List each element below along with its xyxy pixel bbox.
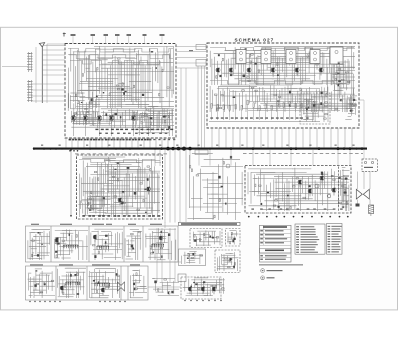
transistor T14 case: [159, 236, 163, 240]
transistor T4 case: [271, 68, 275, 72]
wire: [189, 150, 191, 166]
component body: [203, 281, 205, 283]
IF transformer Z2 bottom coil: [265, 58, 268, 61]
resistor: [147, 166, 150, 167]
transistor T15: [61, 286, 63, 290]
legend symbol B: [261, 276, 265, 280]
component body: [219, 75, 221, 77]
wire: [351, 110, 354, 112]
wire: [140, 112, 174, 114]
wire: [31, 89, 65, 91]
resistor: [274, 94, 277, 95]
bus junction: [129, 147, 131, 149]
capacitor: [279, 105, 280, 108]
wire: [345, 100, 347, 112]
wire: [111, 279, 113, 298]
transistor T18: [202, 287, 204, 291]
capacitor: [77, 273, 78, 276]
wire: [255, 57, 257, 85]
coil L-if pin: [153, 244, 155, 247]
wire: [248, 110, 340, 112]
wire: [86, 67, 90, 69]
bus junction: [355, 147, 357, 149]
wire: [76, 99, 85, 101]
pin label: [168, 139, 170, 140]
value label: [128, 133, 131, 134]
plate joint: [29, 92, 30, 93]
wire: [108, 74, 135, 76]
table rule: [260, 244, 292, 246]
wire: [82, 203, 84, 214]
wire: [176, 62, 207, 64]
transistor TR2 emitter lead: [85, 120, 87, 124]
wire: [146, 116, 148, 128]
pin label: [256, 117, 259, 118]
wire: [357, 200, 359, 205]
pin label: [163, 139, 165, 140]
wire: [31, 231, 43, 233]
wire: [82, 158, 116, 160]
wire: [263, 61, 265, 85]
wire: [31, 248, 37, 250]
FM discriminator enclosure: [190, 229, 222, 248]
wire: [343, 175, 345, 202]
pin label: [107, 215, 110, 217]
wire: [140, 286, 146, 288]
supply feed wire: [70, 150, 72, 216]
component body: [134, 192, 137, 195]
wire: [202, 283, 204, 293]
transistor TR5 emitter lead: [133, 120, 135, 124]
component body: [353, 99, 355, 101]
coil L-osc rail: [97, 245, 109, 247]
wire: [260, 172, 275, 174]
bus junction: [61, 148, 63, 150]
wire: [266, 93, 268, 112]
coil L-mod terminal: [63, 245, 64, 246]
wire: [257, 69, 306, 71]
wire: [281, 58, 283, 72]
wire: [114, 56, 116, 108]
coil L-rect pin: [104, 283, 106, 286]
pin label: [260, 117, 263, 118]
transistor TR5: [133, 116, 135, 120]
value label: [106, 129, 109, 130]
wire: [273, 179, 275, 209]
wire: [174, 228, 176, 282]
wire to bus: [351, 128, 353, 147]
wire: [96, 195, 145, 197]
pin label: [235, 117, 238, 118]
pin label: [133, 215, 136, 217]
terminal label L5: [127, 34, 132, 36]
wire: [29, 246, 46, 248]
speaker wire: [357, 172, 359, 190]
wire: [311, 104, 324, 106]
wire: [344, 60, 346, 83]
wire: [255, 90, 257, 104]
designator D11: [328, 251, 331, 252]
component body: [194, 239, 197, 241]
wire: [119, 276, 121, 298]
designator T8: [296, 244, 299, 245]
wire: [303, 94, 305, 112]
wire: [230, 91, 328, 93]
resistor: [123, 202, 126, 203]
wire: [104, 47, 106, 91]
capacitor plate: [27, 66, 33, 68]
wire: [111, 63, 113, 108]
wire to bus: [77, 138, 79, 147]
antenna trimmer mark: [63, 33, 66, 37]
wire: [199, 254, 201, 264]
capacitor: [168, 115, 169, 118]
wire: [93, 249, 122, 251]
resistor: [271, 105, 272, 110]
wire: [295, 96, 297, 112]
resistor: [242, 90, 245, 91]
capacitor hatch: [369, 205, 374, 206]
module divider: [50, 226, 52, 262]
pin label: [78, 139, 80, 141]
terminal label L4: [115, 34, 120, 36]
component body: [278, 206, 280, 208]
wire: [159, 288, 179, 290]
wire: [194, 234, 210, 236]
component body: [121, 203, 124, 204]
transistor T2 emitter lead: [230, 72, 232, 76]
component body: [225, 203, 226, 205]
wire: [223, 257, 230, 259]
wire: [222, 264, 228, 266]
wire: [130, 297, 143, 299]
wire: [108, 157, 110, 193]
wire: [94, 269, 96, 294]
ground rail: [209, 121, 320, 123]
terminal label L1: [71, 34, 76, 36]
wire to bus: [113, 138, 115, 147]
component body: [103, 92, 105, 93]
pin label: [105, 139, 107, 141]
wire: [343, 184, 346, 186]
bus voltage label: [352, 145, 354, 146]
wire: [113, 167, 115, 217]
component body: [321, 172, 323, 174]
solder pad: [190, 300, 191, 301]
wire to bus: [204, 66, 206, 147]
wire: [150, 159, 152, 214]
wire: [243, 57, 245, 71]
wire: [234, 78, 273, 80]
wire: [115, 233, 117, 260]
wire: [86, 235, 88, 260]
wire: [69, 95, 71, 109]
module row 1 frame: [26, 226, 179, 262]
wire: [220, 84, 292, 86]
resistor: [88, 202, 91, 203]
wire: [203, 203, 237, 205]
wire: [97, 210, 160, 212]
wire: [79, 276, 81, 291]
wire: [286, 93, 310, 95]
pin label: [210, 117, 213, 118]
wire: [332, 80, 355, 82]
wire: [66, 274, 68, 298]
wire: [57, 250, 73, 252]
band code: [260, 234, 263, 235]
wire: [119, 169, 141, 171]
wire: [108, 109, 174, 111]
wire: [336, 66, 355, 68]
pin label: [241, 117, 244, 118]
wire: [88, 102, 90, 123]
wire: [270, 85, 272, 101]
wire to bus: [260, 128, 262, 147]
wire: [348, 103, 351, 105]
transistor T18 body: [202, 288, 204, 291]
wire: [310, 94, 312, 112]
coil L-mod terminal: [66, 245, 67, 246]
wire: [86, 97, 90, 99]
wire: [42, 49, 65, 51]
wire: [227, 256, 229, 265]
solder pad: [184, 300, 185, 301]
wire to bus: [107, 138, 109, 147]
wire to bus: [218, 128, 220, 147]
routing bus: [68, 55, 173, 59]
wire: [213, 104, 234, 106]
pin label: [102, 215, 105, 217]
wire: [185, 68, 187, 147]
wire: [308, 87, 310, 101]
component body: [73, 115, 75, 116]
bus junction: [171, 147, 174, 150]
wire: [203, 234, 205, 246]
wire from edge: [2, 66, 28, 68]
coil L-af terminal: [65, 282, 66, 283]
wire: [165, 114, 167, 128]
module row 2 frame: [26, 266, 149, 300]
capacitor plate: [27, 58, 33, 60]
wire: [218, 86, 220, 111]
wire: [263, 175, 265, 192]
wire: [235, 109, 237, 120]
wire: [84, 202, 86, 215]
wire: [323, 53, 325, 73]
wire: [342, 206, 347, 208]
wire: [87, 207, 98, 209]
transistor T12: [56, 238, 58, 242]
wire: [160, 282, 179, 284]
wire: [114, 172, 116, 218]
wire: [153, 288, 161, 290]
wire: [87, 204, 90, 206]
wire: [213, 57, 215, 85]
coil L-rect terminal: [104, 283, 105, 284]
pin label: [296, 117, 299, 118]
wire: [146, 238, 166, 240]
wire: [188, 279, 190, 289]
pin label: [225, 117, 228, 118]
wire: [42, 45, 65, 47]
FM section caption frame: [179, 222, 241, 225]
wire: [51, 271, 53, 291]
value label: [105, 133, 108, 134]
wire: [343, 200, 349, 202]
coil L-osc terminal: [101, 246, 102, 247]
wire: [196, 244, 211, 246]
wire: [268, 67, 355, 69]
transistor T10: [321, 176, 323, 180]
transistor T12 case: [55, 238, 59, 242]
wire: [329, 50, 331, 73]
resistor: [228, 266, 231, 267]
wire: [149, 115, 151, 128]
plate joint: [29, 53, 30, 54]
stereo decoder enclosure: [181, 277, 221, 299]
wire: [35, 234, 37, 255]
pin label: [250, 117, 253, 118]
wire to bus: [330, 128, 332, 147]
coil L-mod pin: [72, 245, 74, 248]
wire: [129, 81, 151, 83]
wire: [277, 57, 279, 85]
wire: [156, 228, 158, 282]
legend A text: [267, 270, 283, 271]
wire: [282, 172, 284, 201]
tuning capacitor frame: [27, 80, 29, 102]
coil L-af pin: [70, 282, 72, 285]
pin label: [128, 215, 131, 217]
wire: [313, 101, 318, 103]
wire: [97, 162, 99, 197]
wire: [196, 282, 223, 284]
wire: [105, 51, 139, 53]
wire: [299, 183, 301, 211]
wire: [233, 236, 235, 245]
wire: [136, 53, 138, 103]
wire: [136, 169, 138, 217]
wire: [295, 108, 297, 120]
wire to bus: [295, 128, 297, 147]
table rule: [260, 257, 292, 259]
wire: [71, 108, 83, 110]
wire: [139, 167, 141, 209]
resistor: [137, 209, 140, 210]
wire: [34, 254, 39, 256]
wire: [195, 236, 197, 246]
wire: [42, 74, 65, 76]
wire: [351, 46, 353, 68]
transistor TR3 emitter lead: [99, 120, 101, 124]
wire: [140, 57, 142, 109]
wire: [62, 229, 72, 231]
terminal lead wire: [92, 36, 94, 43]
pin label: [313, 209, 316, 210]
wire: [34, 295, 55, 297]
component body: [96, 96, 98, 98]
wire: [260, 192, 331, 194]
wire: [259, 110, 261, 120]
FM IF strip dashed enclosure: [207, 43, 359, 128]
wire: [152, 278, 175, 280]
coil L-rect terminal: [97, 283, 98, 284]
wire: [139, 270, 141, 284]
capacitor: [188, 254, 189, 257]
wire: [149, 124, 157, 126]
wire: [144, 66, 146, 108]
speaker wire: [363, 172, 365, 190]
wire: [338, 70, 355, 72]
wire: [343, 195, 349, 197]
wire: [43, 231, 45, 260]
resistor: [325, 105, 328, 106]
wire: [109, 120, 115, 122]
pin label: [126, 139, 128, 141]
wire: [304, 99, 314, 101]
wire: [42, 54, 65, 56]
pin label: [135, 139, 137, 141]
component body: [120, 116, 122, 118]
wire: [98, 87, 134, 89]
wire: [48, 231, 50, 244]
component body: [70, 274, 72, 277]
wire: [252, 191, 260, 193]
capacitor: [32, 254, 33, 257]
component body: [125, 91, 127, 92]
wire: [133, 274, 135, 297]
resistor: [131, 233, 134, 234]
wire: [214, 52, 332, 54]
wire: [228, 89, 230, 112]
component body: [171, 291, 173, 294]
component body: [57, 243, 60, 245]
wire: [230, 252, 234, 254]
transistor T4 emitter lead: [272, 72, 274, 76]
type label 6: [301, 239, 320, 240]
wire: [292, 177, 294, 192]
wire: [70, 99, 79, 101]
wire: [79, 103, 100, 105]
wire: [91, 196, 100, 198]
wire: [135, 114, 137, 128]
wire: [166, 47, 168, 98]
wire: [350, 95, 357, 97]
coil L-rect terminal: [94, 283, 95, 284]
output stage dashed enclosure: [245, 166, 351, 214]
wire: [89, 55, 91, 108]
resistor: [140, 183, 143, 184]
wire: [261, 208, 333, 210]
capacitor: [344, 192, 345, 195]
bus junction: [182, 147, 186, 151]
wire: [302, 57, 304, 84]
capacitor: [165, 120, 166, 123]
wire: [109, 65, 111, 108]
emitter wire: [85, 122, 87, 136]
table column rule: [263, 225, 265, 245]
coil L-osc terminal: [103, 246, 104, 247]
wire: [270, 56, 272, 73]
wire: [62, 233, 64, 260]
capacitor: [230, 241, 231, 244]
wire: [212, 90, 214, 107]
module caption: [128, 224, 136, 225]
wire: [340, 87, 349, 89]
solder pad: [329, 216, 331, 218]
wire: [150, 249, 169, 251]
wire: [284, 47, 286, 80]
